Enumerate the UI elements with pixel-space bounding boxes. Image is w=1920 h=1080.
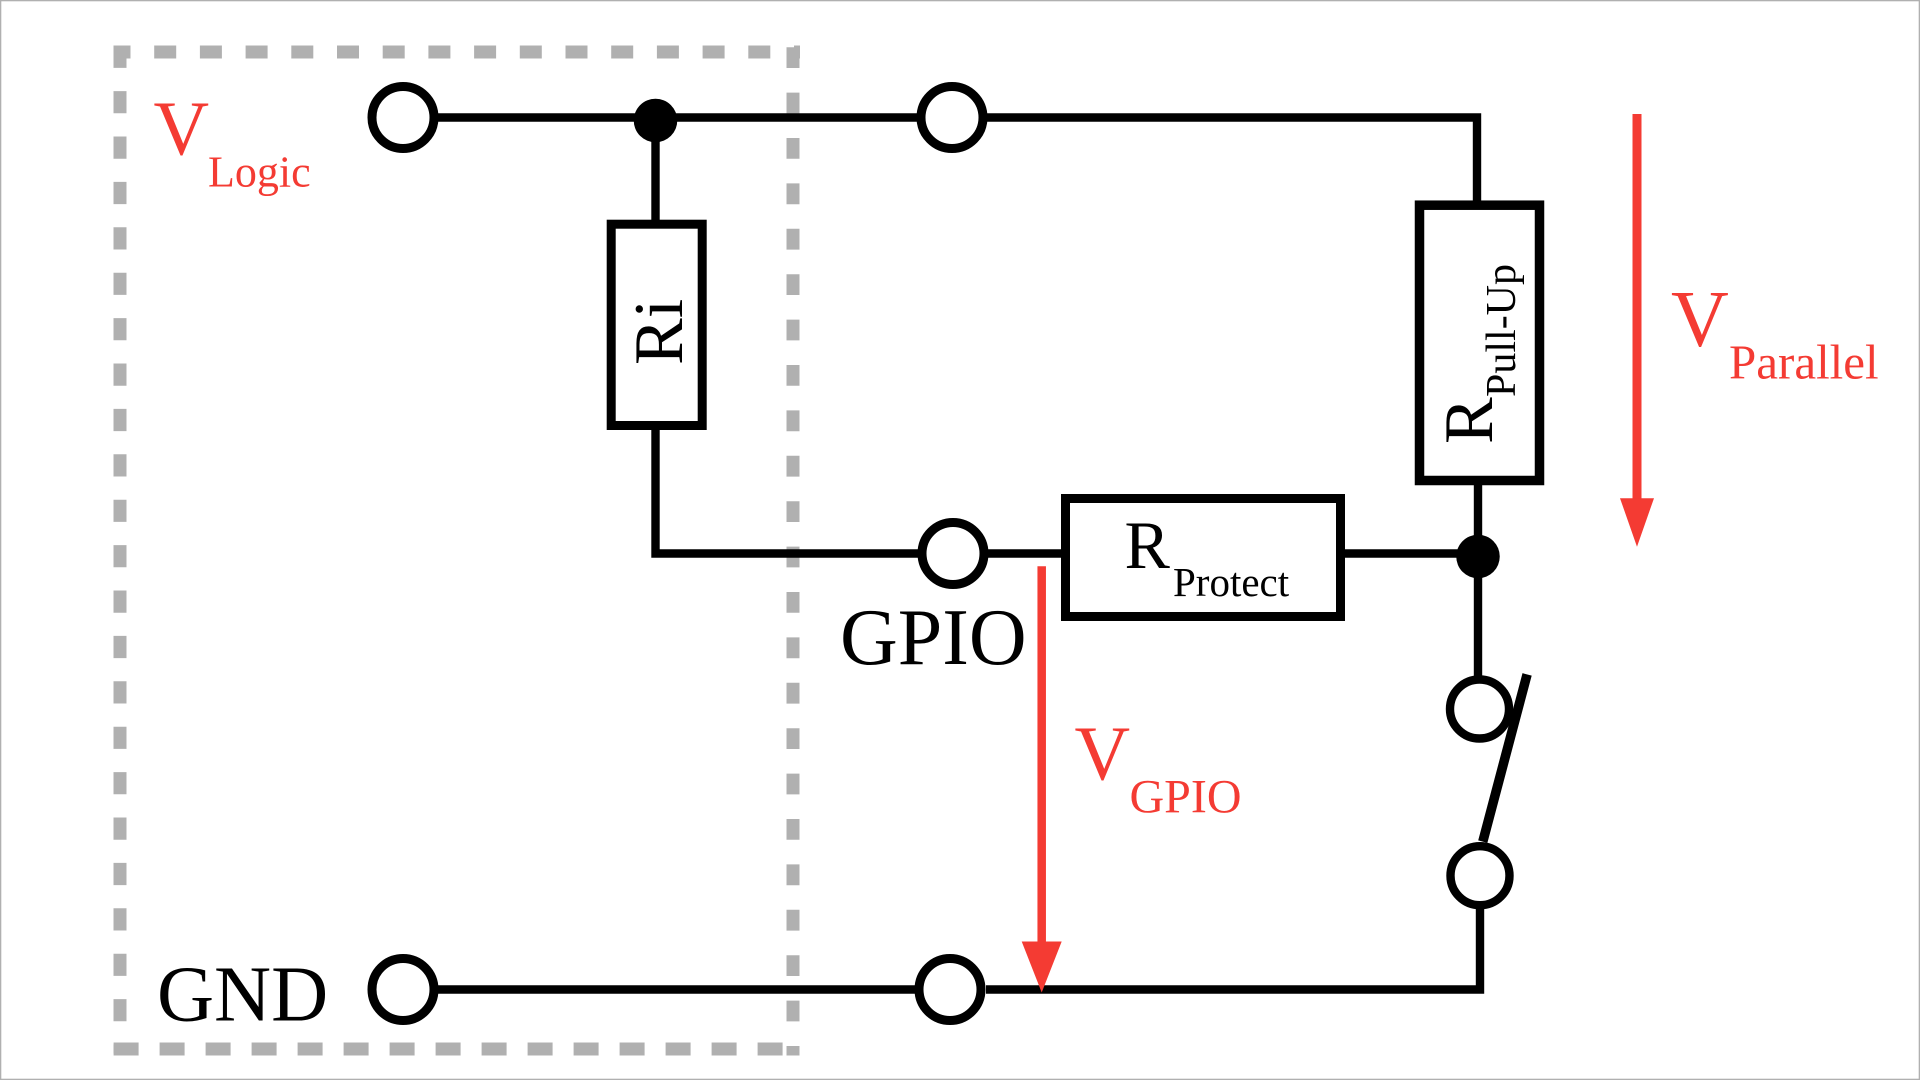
- terminal V_Logic (top-left): [372, 87, 434, 149]
- terminal GPIO top: [921, 87, 983, 149]
- junction A (node V_Logic / Ri): [634, 99, 678, 143]
- svg-text:V: V: [1671, 276, 1729, 364]
- svg-text:Protect: Protect: [1173, 559, 1290, 605]
- svg-text:Pull-Up: Pull-Up: [1479, 264, 1525, 397]
- switch S1: [1450, 674, 1527, 905]
- terminal GPIO mid: [922, 523, 984, 585]
- svg-text:GPIO: GPIO: [840, 594, 1027, 682]
- svg-text:Ri: Ri: [621, 299, 698, 365]
- wire: switch bottom to bottom rail corner: [986, 908, 1480, 990]
- wire top-right: GPIO top terminal to R_Pull-Up: [986, 118, 1477, 206]
- svg-text:GPIO: GPIO: [1130, 771, 1242, 824]
- svg-text:Logic: Logic: [208, 148, 311, 197]
- voltage arrow V_Parallel: [1620, 114, 1654, 547]
- resistor R_Protect: [1066, 499, 1341, 617]
- wire bottom rail: GND terminal to bottom GPIO terminal: [436, 985, 916, 993]
- wire: R_Pull-Up bottom through junction B to switch: [1474, 483, 1482, 677]
- junction B (node R_Protect / R_Pull-Up / switch): [1456, 535, 1500, 579]
- wire: junction A down to Ri: [651, 118, 659, 223]
- label V_Parallel: [1671, 276, 1879, 390]
- voltage arrow V_GPIO: [1022, 566, 1062, 992]
- label V_GPIO: [1075, 711, 1242, 824]
- terminal GPIO bottom: [919, 959, 981, 1021]
- wire: GPIO mid terminal to R_Protect: [987, 549, 1063, 557]
- svg-text:V: V: [1075, 711, 1131, 797]
- svg-text:Parallel: Parallel: [1729, 335, 1879, 390]
- svg-text:V: V: [154, 86, 210, 172]
- terminal GND (bottom-left): [372, 959, 434, 1021]
- wire: R_Protect to junction B: [1343, 549, 1478, 557]
- wire top: V_Logic terminal to junction A to GPIO top terminal: [436, 113, 918, 121]
- dashed boundary (logic device box): [114, 46, 801, 1056]
- label V_Logic: [154, 86, 311, 197]
- wire: Ri bottom to GPIO mid terminal: [656, 428, 920, 554]
- svg-text:R: R: [1125, 507, 1171, 583]
- resistor R_Pull-Up: [1420, 205, 1540, 480]
- resistor Ri: [611, 224, 702, 425]
- svg-text:R: R: [1431, 397, 1508, 444]
- svg-text:GND: GND: [157, 952, 328, 1039]
